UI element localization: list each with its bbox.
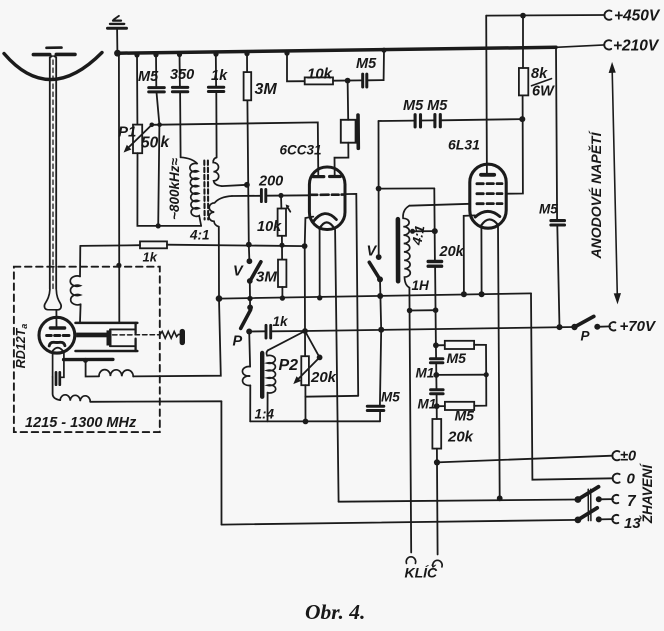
6L31 grid dashes row2 <box>477 192 502 195</box>
P switch no.2 blade <box>575 316 594 327</box>
6CC31 cathode arc <box>313 214 337 222</box>
svg-text:Obr. 4.: Obr. 4. <box>305 600 365 624</box>
svg-text:P: P <box>233 334 243 350</box>
wire 20k cap down through line2 line3 to chain <box>434 267 437 345</box>
coil L3 <box>60 395 90 402</box>
svg-text:13: 13 <box>624 515 641 532</box>
svg-text:7: 7 <box>627 493 637 510</box>
svg-text:350: 350 <box>170 67 194 83</box>
V switch no.2 blade <box>369 262 380 279</box>
wire trimmer drop from 10k/M5 node <box>347 81 350 120</box>
wire L2 entry from bar <box>86 361 99 377</box>
capacitor M5 (left) top lead <box>155 54 157 87</box>
wire M5 no.3 top to line3 <box>380 330 381 406</box>
resistor 1k (horizontal) left lead <box>80 244 140 247</box>
resistor 8k body <box>519 68 528 95</box>
wire V2 blade pivot down through line1 line3 <box>380 279 381 329</box>
6CC31 anode dashes <box>313 175 340 178</box>
dashed enclosure box 1215-1300MHz <box>14 267 160 432</box>
coil L2 heater choke <box>99 370 133 377</box>
resistor 3M no.1 body <box>244 72 252 100</box>
svg-text:P2: P2 <box>279 357 299 374</box>
node M5M5 to 8k <box>519 116 525 122</box>
svg-text:1k: 1k <box>143 250 158 265</box>
resonator cavity right edge <box>134 323 136 351</box>
wire rail corner up to M5 no.3 <box>379 411 381 421</box>
node P2 wiper <box>317 355 323 361</box>
RD12Ta anode bar <box>50 326 64 329</box>
transformer T3 core bar <box>260 353 264 397</box>
svg-text:1H: 1H <box>412 278 430 293</box>
6CC31 heater lead 2 long down to 7-wire <box>335 230 339 502</box>
node grid 200 <box>278 193 283 198</box>
RC chain capacitor M1 no.1 <box>435 345 437 358</box>
resistor 1k body <box>140 241 167 248</box>
RD12Ta grid dashes <box>47 334 69 337</box>
RD12Ta bottom leads <box>53 352 64 378</box>
6L31 anode bar <box>481 173 494 177</box>
load termination bar <box>180 329 185 344</box>
wire secondary lower down to heater line <box>218 227 220 299</box>
capacitor M5 (left) bottom lead <box>157 92 160 226</box>
wire M5 no.4 to P switch no.2 <box>557 226 559 328</box>
parabolic dish antenna <box>4 53 102 80</box>
svg-text:20k: 20k <box>447 429 474 446</box>
RD12Ta heater dome <box>53 348 63 351</box>
+210V terminal hook <box>604 40 611 49</box>
fraction slash 8k/6W <box>532 79 552 86</box>
7 heater wire <box>339 500 578 502</box>
svg-text:P1: P1 <box>118 124 136 141</box>
node 20k bottom <box>434 459 440 465</box>
svg-text:1k: 1k <box>211 68 228 84</box>
wire 13 contact to terminal <box>599 518 613 520</box>
coil L3 wire to right column <box>90 400 221 403</box>
potentiometer P1 body <box>133 125 142 154</box>
capacitor M5 a plates <box>415 115 420 127</box>
wire M5M5 coupling <box>379 120 414 122</box>
svg-text:k: k <box>161 134 171 151</box>
svg-text:M1: M1 <box>416 366 435 381</box>
nodes RC chain <box>433 342 439 348</box>
svg-text:RD12Ta: RD12Ta <box>14 324 29 369</box>
node trimmer tap <box>345 78 351 84</box>
node RD12 bar drop <box>83 358 88 363</box>
potentiometer P2 body <box>301 356 309 385</box>
plunger bar <box>107 331 111 345</box>
nodes 7-wire <box>497 495 503 501</box>
capacitor 200 plates <box>261 190 265 202</box>
RC chain mid branch <box>436 374 486 376</box>
wire 3M no.2 bottom to heater line1 <box>281 287 283 298</box>
nodes line2 <box>407 308 413 314</box>
dipole left bar <box>33 53 49 57</box>
svg-text:20k: 20k <box>439 244 465 260</box>
capacitor M5 b plates <box>435 115 440 127</box>
feedline right conductor <box>53 56 56 289</box>
6L31 grid dashes row3 <box>477 202 502 205</box>
transformer T1 secondary upper winding <box>213 158 222 187</box>
ZHAVENI switch no.1 blade <box>578 487 599 500</box>
svg-text:0: 0 <box>627 471 636 488</box>
svg-text:+450V: +450V <box>614 8 661 25</box>
wire P junction down through 1:4 primary <box>248 332 251 367</box>
svg-text:8k: 8k <box>531 66 548 82</box>
svg-text:+70V: +70V <box>620 318 657 335</box>
feed flare bell <box>44 290 61 310</box>
wire cathode junction down to fan junction <box>304 246 306 331</box>
plus-minus-0 terminal hook <box>612 451 619 460</box>
potentiometer P2 wiper arrow <box>298 357 320 379</box>
13 heater wire <box>222 520 578 525</box>
dashed axis line <box>113 334 160 336</box>
svg-text:20k: 20k <box>310 369 337 386</box>
wire bus end down M5 no.4 <box>556 47 557 220</box>
capacitor 1k plates <box>208 87 223 91</box>
7 terminal hook <box>612 495 618 503</box>
tube 6L31 envelope <box>470 164 506 228</box>
load resistor zigzag <box>160 331 180 338</box>
wire P junction to 1k cap <box>249 330 264 332</box>
potentiometer P1 wiper arrow <box>129 125 152 147</box>
transformer T3 1:4 primary winding <box>242 367 250 386</box>
capacitor M5 (left) plates <box>149 88 165 92</box>
wire grid line from secondary to 200 cap <box>232 195 260 197</box>
svg-text:±0: ±0 <box>620 449 636 465</box>
+450V feed wire <box>486 14 604 17</box>
capacitor M5 no.4 plates <box>551 221 565 225</box>
capacitor 1k bottom lead to secondary top <box>215 92 217 157</box>
svg-text:1k: 1k <box>273 314 290 329</box>
wire junction down to KLIC right <box>436 462 439 554</box>
6L31 cathode arc <box>475 211 500 217</box>
wire T2 bottom down to KLIC left <box>409 288 411 553</box>
V switch no.1 blade <box>250 262 261 281</box>
wire 200 cap to 6CC31 grid <box>267 194 309 196</box>
nodes on 1k cathode wire <box>246 242 252 248</box>
6CC31 heater lead 1 <box>319 230 321 298</box>
resistor 3M no.2 body <box>278 260 286 287</box>
wire 20k bottom to junction <box>436 449 438 463</box>
fan diagonal to 1:4 secondary top <box>268 331 305 350</box>
svg-text:M5: M5 <box>138 69 159 85</box>
RD12Ta cathode cup arc <box>49 342 65 346</box>
resistor 10k no.2 body <box>278 209 286 236</box>
wire 10k no.2 bottom to 1k-wire <box>281 236 283 245</box>
wire between M5 caps <box>422 119 433 121</box>
nodes on line3 <box>302 328 308 334</box>
KLIC left terminal hook <box>406 557 415 564</box>
wire 10k to M5 cap no.4 <box>333 79 361 81</box>
svg-text:3M: 3M <box>255 81 278 98</box>
wire 8k top to +450V <box>522 16 524 68</box>
6L31 heater lead <box>480 225 482 294</box>
svg-text:6CC31: 6CC31 <box>280 143 322 158</box>
V switch no.2 contacts <box>376 254 382 260</box>
capacitor 350 bottom lead to primary top <box>179 92 182 157</box>
resonator cavity bottom edge <box>76 350 138 353</box>
trimmer capacitor plate bar <box>356 115 360 148</box>
wire P2 bottom to rail <box>304 385 306 421</box>
ground symbol tick <box>114 16 119 20</box>
svg-text:10k: 10k <box>257 219 282 235</box>
wire M5 b to 8k line <box>442 119 523 120</box>
6L31 screen lead <box>506 95 523 193</box>
capacitor 1k no.2 plates <box>266 325 271 338</box>
svg-text:10k: 10k <box>307 66 333 83</box>
transformer T1 core dashed <box>204 161 208 220</box>
inner conductor bar <box>77 333 111 337</box>
wire tap line down to 20k cap <box>433 188 436 260</box>
node +450V tap <box>520 13 526 19</box>
resistor 10k no.1 body <box>305 77 333 84</box>
resonator cavity top edge <box>76 322 138 325</box>
6L31 cathode-right lead down to 7-wire <box>498 225 500 498</box>
wire branch at 188 to tap line <box>379 187 435 189</box>
wire +450V down to 6L31 anode <box>485 16 488 174</box>
plus-minus-0 wire <box>437 456 613 463</box>
cathode capacitor bars <box>56 372 60 384</box>
RD12Ta tube circle <box>39 317 75 353</box>
svg-text:M1: M1 <box>418 397 437 412</box>
svg-text:M5: M5 <box>455 408 475 424</box>
P switch no.1 contacts <box>247 305 253 311</box>
node P1 wiper <box>150 123 155 128</box>
wire secondary upper to 3M junction <box>222 185 247 186</box>
6L31 cathode lead left <box>464 215 475 294</box>
6CC31 right grid lead <box>345 194 358 396</box>
wire 10k junction down 3M no.2 top lead <box>281 245 283 259</box>
svg-text:M5: M5 <box>356 56 377 72</box>
wire bus to +210V terminal <box>556 45 604 47</box>
wire P1 bottom to primary bottom <box>137 153 201 226</box>
nodes 13-wire <box>575 517 582 524</box>
svg-text:P: P <box>581 329 591 344</box>
wire 7 contact to terminal <box>599 498 613 500</box>
P switch no.1 upper lead <box>249 299 251 308</box>
wire 1:4 secondary to bottom rail <box>267 393 269 422</box>
ZHAVENI switch link bars <box>588 489 591 520</box>
anode voltage arrow line <box>612 67 617 300</box>
capacitor 350 plates <box>172 87 187 91</box>
wire line1 right end down and to 0 terminal <box>531 293 613 479</box>
wire T2 grid wire to 6L31 grid3 <box>409 204 470 206</box>
transformer T1 secondary lower winding <box>209 196 232 227</box>
svg-text:+210V: +210V <box>613 38 660 55</box>
wire P1 wiper to 6CC31 left anode <box>152 122 318 176</box>
wire 1k to cathode junction <box>167 245 305 246</box>
heater supply line1 <box>219 293 531 298</box>
resistor 3M no.1 top lead <box>246 52 248 72</box>
6CC31 heater dome <box>319 222 334 229</box>
svg-text:KLÍČ: KLÍČ <box>405 564 439 581</box>
svg-text:ANODOVÉ NAPĚTÍ: ANODOVÉ NAPĚTÍ <box>587 130 604 259</box>
bottom rail of modulation stage <box>250 420 380 422</box>
svg-text:M5 M5: M5 M5 <box>403 98 448 114</box>
node transformer tap T2 <box>410 229 415 234</box>
small arrow at 10k no.2 <box>287 207 290 212</box>
svg-text:M5: M5 <box>381 390 400 405</box>
wire coil L1 to resonator top <box>79 304 82 322</box>
wire bus to 10k loop <box>287 52 305 81</box>
V switch no.1 lower lead <box>249 281 251 299</box>
svg-text:200: 200 <box>258 174 283 190</box>
node branch 188 <box>376 186 382 192</box>
svg-text:1:4: 1:4 <box>255 407 275 422</box>
wire 3M no.1 to junction A and V switch <box>247 100 249 261</box>
wire M5 no.4 up to bus <box>368 50 384 80</box>
6L31 heater dome <box>481 219 498 225</box>
RC chain resistor M5 no.1 <box>436 344 445 346</box>
V switch no.1 contacts <box>247 258 253 264</box>
+210V supply bus (thick) <box>117 47 556 53</box>
resistor 20k no.2 body <box>432 419 441 449</box>
svg-text:6L31: 6L31 <box>448 137 480 153</box>
svg-text:V: V <box>367 244 378 260</box>
capacitor 20k plates <box>428 262 441 267</box>
svg-text:6W: 6W <box>532 84 555 100</box>
wire grid leak to P2 bottom <box>305 395 358 398</box>
wire line2 bridge <box>410 309 436 311</box>
P2 arrowhead <box>294 377 300 383</box>
wire coil3 to 13-wire <box>220 401 222 524</box>
feedline center dashed line <box>52 60 54 290</box>
wire P2 switch contact to +70V terminal <box>597 325 610 327</box>
anode lead flare to tube <box>55 310 57 326</box>
capacitor 350 top lead <box>179 53 181 86</box>
wire bus-start down into resonator box <box>118 53 120 322</box>
junction dots on bus <box>114 50 121 57</box>
dipole top stub <box>47 46 62 49</box>
capacitor 1k top lead <box>215 53 217 87</box>
wire trimmer to 6CC31 right anode <box>335 143 349 177</box>
wire bus to P1 top <box>136 54 138 125</box>
+70V terminal hook <box>609 322 615 330</box>
P switch no.1 blade <box>241 310 251 329</box>
+70V line3 from fan junction to P switch no.2 <box>272 327 574 331</box>
svg-text:50: 50 <box>141 135 159 152</box>
0 terminal hook <box>613 474 620 483</box>
svg-text:1215 - 1300 MHz: 1215 - 1300 MHz <box>25 415 137 431</box>
RC chain capacitor M1 no.2 <box>435 375 437 389</box>
plunger rails <box>110 329 134 346</box>
ZHAVENI switch no.2 blade <box>578 508 597 520</box>
+450V terminal hook <box>604 11 611 20</box>
6CC31 grid dashes <box>311 193 344 196</box>
wire fan junction down to P2 body <box>304 331 306 356</box>
trimmer capacitor body <box>341 120 356 143</box>
RC chain resistor M5 no.2 <box>437 405 445 407</box>
transformer T2 tap wire <box>413 230 435 232</box>
svg-text:M5: M5 <box>539 202 558 217</box>
dipole right bar <box>56 53 75 57</box>
svg-text:V: V <box>233 264 244 280</box>
wire 1:4 primary to bottom rail <box>249 385 251 421</box>
nodes on heater line1 <box>216 295 223 302</box>
13 terminal hook <box>612 515 618 523</box>
ground stem <box>116 30 118 53</box>
transformer T2 winding 1H <box>403 206 410 288</box>
capacitor M5 no.4 plates <box>363 74 367 87</box>
svg-text:M5: M5 <box>447 350 467 366</box>
svg-text:~800kHz≈: ~800kHz≈ <box>167 157 182 219</box>
wire V2 column M5M5 corner down to V switch no.2 <box>378 121 380 257</box>
6L31 grid dashes row1 <box>477 182 502 185</box>
RD12Ta grid bar <box>64 358 113 362</box>
6CC31 cathode lead to left <box>305 217 314 247</box>
wire coil L1 top lead <box>79 246 81 277</box>
coil L1 (vertical) <box>70 276 80 305</box>
tube 6CC31 envelope <box>309 167 345 230</box>
potentiometer P1 arrowhead <box>125 146 131 152</box>
fan diagonal to P2 wiper <box>305 331 320 357</box>
feedline left conductor <box>50 56 53 289</box>
node M5 cap to coil wire <box>156 223 161 228</box>
svg-text:4:1: 4:1 <box>189 228 210 243</box>
svg-text:ŽHAVENÍ: ŽHAVENÍ <box>640 463 655 525</box>
KLIC right terminal hook <box>433 560 442 567</box>
ground symbol bars <box>108 27 127 30</box>
resistor 20k no.2 top lead <box>436 406 438 419</box>
wire grid node down to 10k no.2 <box>280 196 282 209</box>
transformer T1 primary winding ~800kHz <box>181 157 202 226</box>
node rail P2 <box>303 419 309 425</box>
transformer T2 interstage core bar <box>396 219 401 281</box>
svg-text:3M: 3M <box>256 269 277 286</box>
wire cathode cap down to L3 <box>53 377 61 400</box>
transformer T3 1:4 secondary winding <box>267 350 276 393</box>
node 3M secondary junction <box>244 182 250 188</box>
heater choke wire to left column <box>133 299 221 377</box>
capacitor M5 no.3 plates <box>367 406 384 410</box>
